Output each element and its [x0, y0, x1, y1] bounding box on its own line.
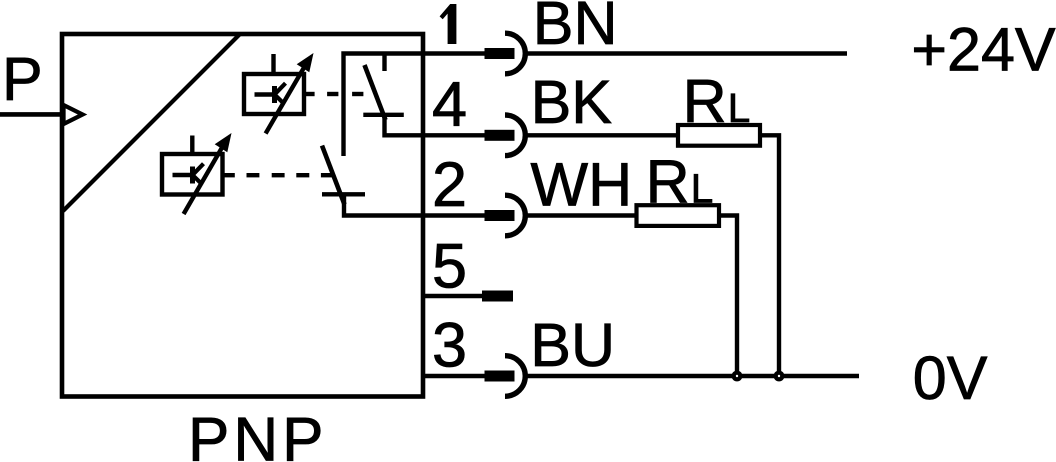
net +24V label [911, 16, 1055, 84]
comparator B1 adjustment arrow [266, 53, 314, 134]
resistor RL2 [637, 205, 720, 226]
wire pressure input [0, 112, 62, 117]
switch S2 (lower, NO contact) [322, 146, 365, 205]
switch S1 (upper, NO contact) [363, 54, 404, 121]
svg-text:0V: 0V [913, 344, 988, 412]
connector pin 4 socket arc [505, 115, 525, 156]
connector pin 5 plug bar [482, 291, 513, 302]
wire dashed control link B2 to switch S2 [223, 173, 334, 177]
svg-text:R: R [646, 147, 690, 215]
connector pin 4 plug bar [485, 130, 515, 141]
pin 1 number [440, 4, 457, 44]
label BN [533, 0, 618, 57]
wire pin 4 output from S1 [385, 115, 515, 136]
svg-text:+24V: +24V [911, 16, 1055, 84]
wire supply rail from pin 1 node [344, 54, 515, 157]
label WH [531, 151, 633, 219]
label PNP [188, 406, 327, 462]
pin 4 number [432, 70, 467, 140]
connector pin 1 plug bar [485, 48, 515, 59]
svg-text:L: L [691, 165, 714, 211]
junction RL1 on 0V rail [774, 371, 785, 382]
pin 5 number [432, 231, 467, 301]
diagonal separator line inside box [63, 34, 240, 211]
resistor RL2 value label [646, 147, 714, 215]
wire WH to resistor RL2 [526, 213, 637, 217]
net 0V label [913, 344, 988, 412]
wire dashed control link B1 to switch S1 [304, 92, 363, 96]
label BK [531, 68, 612, 136]
svg-text:5: 5 [432, 231, 467, 301]
svg-text:2: 2 [432, 150, 467, 220]
svg-text:4: 4 [432, 70, 467, 140]
svg-text:L: L [728, 85, 751, 131]
connector pin 3 plug bar [485, 371, 515, 382]
node P label [2, 45, 43, 113]
pin 3 number [432, 311, 467, 381]
svg-text:3: 3 [432, 311, 467, 381]
wire pin 5 stub [423, 294, 513, 298]
resistor RL1 value label [683, 67, 751, 135]
svg-text:P: P [2, 45, 43, 113]
connector pin 2 socket arc [505, 195, 525, 236]
resistor RL1 [678, 125, 760, 146]
svg-text:BU: BU [530, 311, 615, 379]
wire BU to 0V [526, 374, 859, 378]
wire pin 2 output from S2 [344, 194, 514, 215]
svg-text:R: R [683, 67, 727, 135]
wire RL2 to 0V rail [719, 216, 737, 377]
connector pin 3 socket arc [505, 356, 525, 397]
comparator B2 (lower threshold) [162, 136, 223, 195]
pressure input arrowhead [64, 105, 83, 124]
sensor body box PNP [62, 34, 423, 397]
junction RL2 on 0V rail [732, 371, 743, 382]
connector pin 1 socket arc [505, 33, 525, 74]
wire pin 3 to 0V [423, 374, 514, 378]
wire RL1 to 0V rail [760, 135, 779, 376]
svg-text:BN: BN [533, 0, 618, 57]
comparator B1 (upper threshold) [244, 54, 304, 114]
label BU [530, 311, 615, 379]
svg-text:PNP: PNP [188, 406, 327, 462]
svg-text:BK: BK [531, 68, 612, 136]
pin 2 number [432, 150, 467, 220]
svg-text:WH: WH [531, 151, 633, 219]
wire BK to resistor RL1 [526, 133, 678, 137]
connector pin 2 plug bar [485, 210, 515, 221]
wire BN to +24V [526, 51, 847, 55]
comparator B2 adjustment arrow [184, 133, 232, 214]
